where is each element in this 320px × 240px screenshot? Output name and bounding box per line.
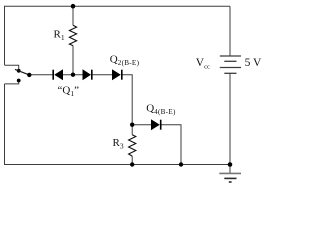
- wire: R3 top lead: [131, 125, 133, 135]
- node: battery/ground bottom rail junction dot: [228, 162, 233, 167]
- diode D2 cathode bar: [91, 70, 93, 80]
- resistor R3 zigzag: [129, 135, 136, 156]
- wire: left rail upper segment: [4, 6, 6, 65]
- switch S1 top throw contact: [17, 69, 21, 73]
- battery V1 short plate 2: [224, 60, 236, 62]
- battery V1 short plate 4: [224, 72, 236, 74]
- svg-text:Q4(B-E): Q4(B-E): [146, 102, 176, 116]
- node: top rail / R1 junction dot: [71, 4, 76, 9]
- resistor R1 zigzag: [69, 25, 76, 45]
- wire: top rail: [5, 5, 231, 7]
- wire: R3 bottom lead to bottom rail: [131, 156, 133, 164]
- diode Q4(B-E) cathode bar: [160, 120, 162, 130]
- switch S1 pole dot: [27, 73, 31, 77]
- ground symbol line 3 (short): [229, 181, 232, 183]
- node: Q4 branch bottom rail junction dot: [179, 162, 183, 166]
- diode Q2(B-E) cathode bar: [121, 70, 123, 80]
- svg-text:Vcc: Vcc: [196, 57, 210, 71]
- wire: node to Q4 branch row: [132, 124, 151, 126]
- switch S1 arm: [15, 69, 29, 75]
- svg-text:R3: R3: [113, 137, 124, 151]
- diode Q2(B-E) triangle: [112, 69, 121, 80]
- wire: switch bottom throw stub: [5, 81, 19, 84]
- wire: R1 top lead from top rail: [72, 6, 74, 25]
- wire: battery bottom lead down to ground: [229, 73, 231, 173]
- battery V1 long plate 3: [220, 67, 241, 69]
- wire: bottom rail: [5, 164, 231, 166]
- ground symbol line 1 (long): [219, 172, 241, 174]
- wire: Q2 output to corner and down to node: [122, 75, 132, 125]
- diode Q4(B-E) triangle: [151, 119, 160, 130]
- node: diode row / R1 junction dot: [71, 73, 75, 77]
- node: Q2 output / R3 / Q4 junction dot: [130, 123, 134, 127]
- svg-text:“Q1”: “Q1”: [58, 85, 80, 99]
- wire: Q4 output to corner and down to bottom rail: [161, 125, 182, 165]
- wire: left rail lower segment: [4, 84, 6, 165]
- wire: R1 bottom lead to diode row: [72, 46, 74, 75]
- node: R3 bottom rail junction dot: [130, 162, 134, 166]
- svg-text:5 V: 5 V: [245, 57, 262, 69]
- wire: switch top throw stub: [5, 65, 19, 70]
- wire: diode row D1 to D2 with R1 tap: [63, 74, 83, 76]
- ground symbol line 2 (middle): [224, 177, 236, 179]
- switch S1 bottom throw contact: [17, 79, 21, 83]
- diode D2 (right of "Q1", pointing right) triangle: [83, 69, 92, 80]
- battery V1 long plate 1: [220, 55, 241, 57]
- diode D1 (left of "Q1", pointing left) triangle: [54, 69, 63, 80]
- svg-text:R1: R1: [54, 29, 65, 43]
- svg-text:Q2(B-E): Q2(B-E): [110, 54, 140, 68]
- wire: switch pole to diode row: [29, 74, 53, 76]
- diode D1 cathode bar: [52, 70, 54, 80]
- wire: diode row D2 to Q2 diode: [92, 74, 113, 76]
- wire: battery top lead from top rail: [229, 6, 231, 56]
